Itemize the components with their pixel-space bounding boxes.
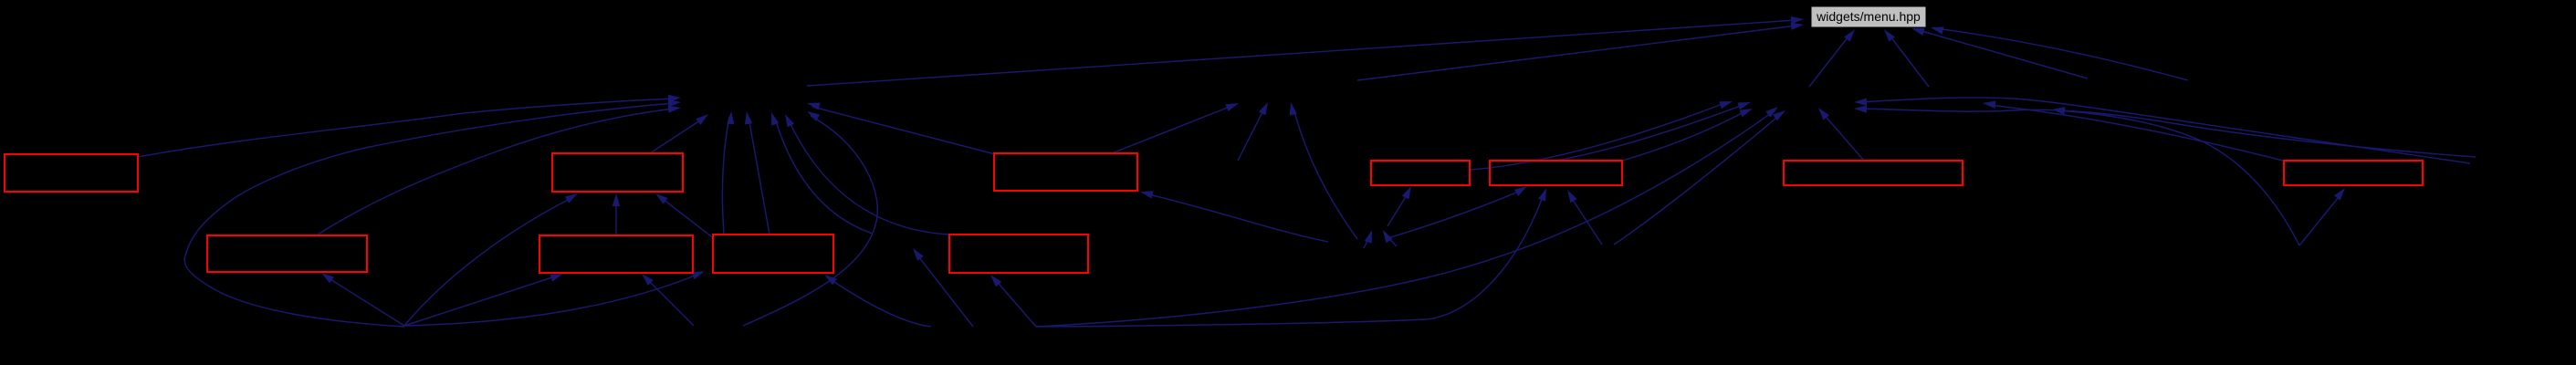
edge hub4 to bG: [990, 275, 1036, 327]
edge hub3 to mn0: [913, 248, 973, 327]
box nodeG: [949, 235, 1088, 273]
edge fn2 to n4 b: [1854, 98, 2470, 163]
edge bn1 to bE: [404, 274, 563, 326]
edge bJ to n4 a: [1556, 102, 1751, 161]
edge n5 to root: [1884, 29, 1929, 87]
edge bn5 to mn1: [1364, 230, 1372, 248]
edge mn1 to bI: [1387, 186, 1411, 226]
box nodeC: [552, 153, 683, 192]
edge hub4 to n4: [1036, 107, 1778, 327]
box nodeE: [539, 235, 693, 273]
box nodeH: [994, 153, 1137, 191]
edge mn1 to bH: [1140, 191, 1328, 242]
box node1: [5, 154, 138, 192]
box nodeJ: [1490, 161, 1622, 185]
edge bn4 to n5b: [2052, 107, 2299, 245]
box nodeL: [2284, 161, 2423, 185]
box nodeB: [207, 235, 367, 272]
edge n1 to root: [807, 16, 1804, 86]
edge bF to n1 b: [745, 111, 770, 235]
edge bL to n5: [1983, 101, 2287, 162]
edge bH to n1: [807, 103, 995, 155]
edge bn1 to bB: [321, 273, 404, 326]
edge bn6 to mn1: [1383, 230, 1397, 246]
edge mn1 to bJ: [1385, 186, 1527, 239]
edge n3 to root: [1357, 23, 1804, 81]
edge n7 to root: [1931, 26, 2188, 80]
edge b1 to n1: [138, 95, 681, 157]
edge mn0 to n1: [771, 112, 873, 234]
edge bK to n4: [1818, 108, 1864, 161]
edge bB to n1: [318, 106, 681, 235]
edge bn3 to bJ: [1567, 190, 1602, 245]
edge n4 to root: [1809, 29, 1855, 87]
edge bE to bC: [613, 193, 620, 235]
root node widgets/menu.hpp: [1811, 6, 1926, 27]
box nodeI: [1371, 161, 1470, 185]
edge bn1 arc to n1: [184, 99, 681, 327]
edge bn3 to n4: [1614, 110, 1785, 245]
edge hub4 to bJ: [1036, 188, 1546, 327]
edge bn1 to bF: [404, 271, 705, 326]
edge bC to n1: [650, 114, 708, 153]
edge inv to n3: [1238, 102, 1268, 161]
edge fn2 to n4: [1854, 105, 2476, 157]
edge n6 to root: [1911, 28, 2088, 78]
edge bn3b to bF: [824, 275, 931, 327]
svg-text:widgets/menu.hpp: widgets/menu.hpp: [1816, 9, 1921, 24]
edge bn4 to bL: [2299, 188, 2345, 245]
edge bn1 to bC: [404, 193, 578, 326]
edge bG to n1: [785, 114, 949, 235]
box nodeF: [713, 235, 833, 273]
box nodeK: [1784, 161, 1963, 185]
edge bF to n1 a: [722, 111, 734, 235]
edge mn1 to n3: [1290, 102, 1357, 239]
edge bn2 to bE: [642, 274, 694, 326]
edge bn2 arc to n1: [743, 111, 877, 326]
edge bF to bC: [655, 193, 715, 239]
edge bI to n4: [1470, 101, 1733, 170]
edge bH to n3: [1112, 103, 1239, 153]
edge bJ to n4 b: [1622, 109, 1753, 161]
